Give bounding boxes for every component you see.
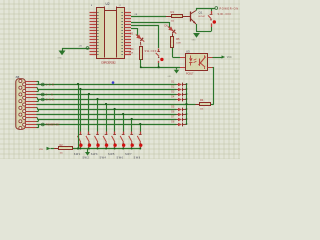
svg-text:SW1: SW1 — [74, 153, 81, 156]
svg-text:10k: 10k — [60, 153, 63, 155]
svg-text:Q1: Q1 — [199, 11, 203, 15]
svg-text:R4: R4 — [200, 98, 204, 102]
svg-text:U2: U2 — [106, 2, 110, 6]
svg-text:GND: GND — [192, 39, 197, 41]
svg-text:PC817: PC817 — [186, 73, 194, 76]
svg-text:SW3: SW3 — [91, 153, 98, 156]
svg-text:SW4: SW4 — [99, 156, 106, 159]
svg-text:BC547: BC547 — [199, 16, 206, 18]
svg-text:SW-OFF: SW-OFF — [145, 49, 157, 53]
svg-text:DSPIC30F2012: DSPIC30F2012 — [101, 60, 116, 64]
svg-text:100R: 100R — [176, 42, 181, 44]
svg-text:GND: GND — [58, 58, 63, 60]
svg-text:LCD: LCD — [46, 84, 54, 87]
svg-text:GND: GND — [46, 99, 54, 102]
svg-text:R1: R1 — [171, 10, 175, 14]
svg-text:SW7: SW7 — [125, 153, 132, 156]
svg-text:SW-ON: SW-ON — [218, 12, 231, 16]
svg-text:100R: 100R — [129, 52, 134, 54]
svg-text:SW2: SW2 — [82, 156, 89, 159]
svg-text:POWER-ON: POWER-ON — [46, 124, 60, 127]
svg-text:U3: U3 — [186, 50, 190, 54]
svg-text:SW8: SW8 — [134, 156, 141, 159]
svg-text:POWER-ON: POWER-ON — [220, 7, 239, 10]
svg-text:SW5: SW5 — [108, 153, 115, 156]
svg-text:10k: 10k — [200, 109, 203, 111]
svg-text:J98: J98 — [15, 76, 20, 79]
svg-text:SW6: SW6 — [117, 156, 124, 159]
svg-text:VCC: VCC — [227, 57, 232, 59]
